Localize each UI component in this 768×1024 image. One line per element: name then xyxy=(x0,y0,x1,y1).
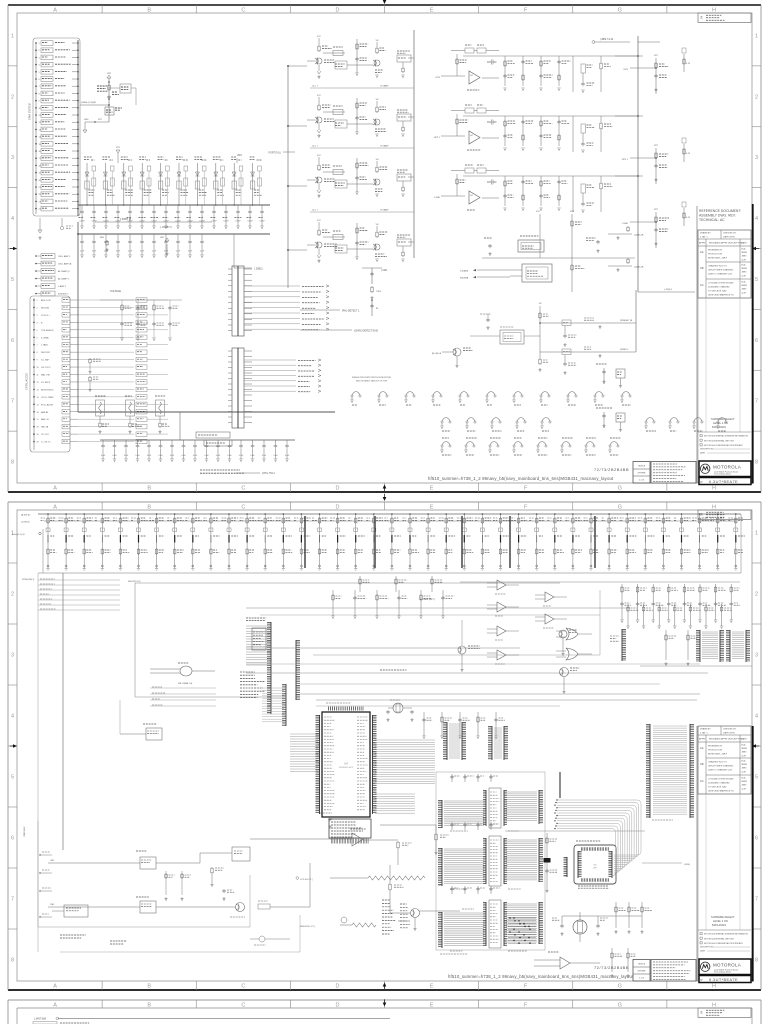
svg-text:SHT/RE: SHT/RE xyxy=(637,971,646,973)
connector J502 pin 9 xyxy=(33,359,35,361)
part number bar xyxy=(699,976,751,983)
resistor RP21B lower xyxy=(427,548,429,549)
net box J502 row 17 xyxy=(62,417,70,421)
net label CHRG DETECT xyxy=(300,329,352,331)
svg-text:VCC: VCC xyxy=(317,220,322,222)
wire bus right of stages xyxy=(413,30,415,258)
left column resistor R630 xyxy=(546,833,548,889)
svg-text:RELEASED BY: RELEASED BY xyxy=(708,745,723,748)
ground stub xyxy=(84,122,86,130)
bus tie xyxy=(615,115,638,117)
resistor RP8 pull-up group xyxy=(192,514,194,568)
revision table xyxy=(698,230,751,298)
connector J502 pin 4 xyxy=(33,322,35,324)
net box J502 row 16 xyxy=(62,410,70,414)
resistor pair R21 xyxy=(110,166,114,171)
resistor RP10 pull-up group xyxy=(228,514,230,568)
wire row bus xyxy=(463,55,643,57)
svg-text:4: 4 xyxy=(755,216,758,222)
resistor RP8B lower xyxy=(192,548,194,549)
svg-text:( J2/B11: ( J2/B11 xyxy=(254,268,263,271)
connector J501 pin 4 xyxy=(35,64,37,66)
wire J504 fanout 2 xyxy=(244,364,296,366)
connector J502 pin 12 xyxy=(33,381,35,383)
svg-text:LCD B.LCT (: LCD B.LCT ( xyxy=(300,879,313,881)
svg-text:5: 5 xyxy=(11,277,14,283)
capacitor C705 xyxy=(222,889,226,893)
svg-text:14: 14 xyxy=(37,397,39,399)
resistor pair far right xyxy=(665,630,667,660)
connector J501 pin 18 xyxy=(35,165,37,167)
centering arrow top xyxy=(383,0,387,4)
svg-text:MOTOROLA INTERNAL USE ONLY: MOTOROLA INTERNAL USE ONLY xyxy=(704,937,735,940)
svg-text:(R.LED A: (R.LED A xyxy=(432,352,442,355)
qfp pins right inner xyxy=(611,851,613,878)
wire preset row 2 xyxy=(540,351,636,353)
svg-text:MC6834C-HC3: MC6834C-HC3 xyxy=(339,767,354,769)
resistor RP24B lower xyxy=(481,548,483,549)
wire fan left xyxy=(38,579,120,581)
svg-text:19: 19 xyxy=(37,434,39,436)
svg-text:3: 3 xyxy=(755,155,758,161)
svg-text:5: 5 xyxy=(755,277,758,283)
svg-text:6: 6 xyxy=(37,337,38,339)
resistor R in xyxy=(323,236,345,238)
svg-text:Schaumburg, Illinois: Schaumburg, Illinois xyxy=(714,473,731,476)
revision table xyxy=(698,726,751,794)
resistor R120 block xyxy=(105,107,114,115)
hanging stub VR72 xyxy=(39,218,41,230)
left bank vertical xyxy=(42,529,44,573)
svg-text:JME3: JME3 xyxy=(742,785,747,787)
bus tie xyxy=(615,175,638,177)
resistor R70b stub xyxy=(683,54,685,72)
wire 2MHz clock xyxy=(80,104,109,106)
resistor column right of combs xyxy=(671,730,673,750)
svg-text:D: D xyxy=(335,984,339,990)
op-amp triangle xyxy=(469,131,480,144)
resistor RP27B lower xyxy=(536,548,538,549)
svg-text:20: 20 xyxy=(37,442,39,444)
connector J501 pin 7 xyxy=(35,85,37,87)
bus loop outline A xyxy=(134,583,136,697)
vertical feed to loops xyxy=(559,772,561,798)
qfp routing loops xyxy=(557,800,641,855)
svg-text:8403-49401: 8403-49401 xyxy=(712,425,726,429)
resistor RP35B lower xyxy=(681,548,683,549)
svg-text:ASSEMBLY DWG: REV:: ASSEMBLY DWG: REV: xyxy=(699,214,736,218)
svg-text:D: D xyxy=(335,1002,339,1008)
svg-text:PRODUCTION: PRODUCTION xyxy=(708,254,722,256)
svg-text:1: 1 xyxy=(755,33,758,39)
resistor RP10B lower xyxy=(228,548,230,549)
crystal X401 xyxy=(393,703,403,713)
junction tick 3 xyxy=(101,535,103,543)
labels cluster bottom-left xyxy=(60,934,86,936)
testpoint TP1 xyxy=(467,418,475,422)
resistor RP5 pull-up group xyxy=(138,514,140,568)
junction tick 15 xyxy=(319,535,321,543)
resistor RP36B lower xyxy=(699,548,701,549)
testpoint TP1 xyxy=(670,418,678,422)
wire bus grid mid xyxy=(246,607,630,609)
svg-text:G: G xyxy=(618,504,622,510)
wire bus gates xyxy=(460,581,740,583)
svg-text:DATE:: DATE: xyxy=(700,452,706,455)
testpoint TP9 xyxy=(595,392,603,396)
junction tick 7 xyxy=(174,535,176,543)
net box J502 row 9 xyxy=(62,357,70,361)
svg-text:( CM1: ( CM1 xyxy=(381,270,388,272)
svg-text:2: 2 xyxy=(755,94,758,100)
comb pair right2 xyxy=(491,726,493,760)
svg-text:CELL AMP (B: CELL AMP (B xyxy=(58,263,72,266)
transistor Q xyxy=(316,177,322,183)
connector J501 pin 1 xyxy=(35,42,37,44)
rc ladder xyxy=(504,56,506,86)
testpoint TP4 xyxy=(460,392,468,396)
output network xyxy=(397,174,411,181)
net box J502 row 13 xyxy=(62,387,70,391)
svg-text:VOLTAGE: VOLTAGE xyxy=(110,290,121,293)
svg-text:ICL.MIC3: ICL.MIC3 xyxy=(41,382,51,384)
cpu fanout right lower xyxy=(375,793,415,795)
resistor RP14 pull-up group xyxy=(300,514,302,568)
testpoint TP7 xyxy=(541,392,549,396)
cpu top pins xyxy=(328,707,364,711)
resistor RP4 pull-up group xyxy=(119,514,121,568)
resistor RP3 pull-up group xyxy=(101,514,103,568)
connector J501 pin 12 xyxy=(35,121,37,123)
resistor RP37 pull-up group xyxy=(717,514,719,568)
svg-text:8: 8 xyxy=(755,958,758,964)
resistor R117 network xyxy=(108,78,110,122)
svg-text:S4: S4 xyxy=(700,1010,704,1014)
svg-text:8: 8 xyxy=(11,958,14,964)
svg-text:1: 1 xyxy=(11,33,14,39)
wire row bus xyxy=(463,175,643,177)
centering arrow left xyxy=(13,744,17,748)
net arrow FULL RATE xyxy=(300,309,340,311)
svg-text:CLC 7: CLC 7 xyxy=(312,210,319,212)
svg-text:COOL.TEMP: COOL.TEMP xyxy=(41,397,54,399)
wire bus BANKB xyxy=(78,233,270,235)
svg-text:VR2: VR2 xyxy=(237,154,242,157)
left bus drop xyxy=(62,573,64,850)
svg-text:7: 7 xyxy=(37,345,38,347)
cpu pins left xyxy=(319,715,321,814)
wire bus bottom xyxy=(100,439,295,441)
svg-text:LP.LAMP: LP.LAMP xyxy=(380,209,389,212)
svg-text:H: H xyxy=(712,504,716,510)
resistor RP36 pull-up group xyxy=(699,514,701,568)
net box J502 row 5 xyxy=(62,328,70,332)
svg-text:(PRES 1: (PRES 1 xyxy=(620,349,629,351)
resistor pair R26 xyxy=(202,166,206,171)
output resistor right xyxy=(600,62,602,63)
junction tick 34 xyxy=(662,535,664,543)
svg-text:5: 5 xyxy=(755,775,758,781)
svg-text:(PAL-DETECT 1: (PAL-DETECT 1 xyxy=(342,310,360,313)
power stub VR row xyxy=(539,306,541,352)
svg-text:Schaumburg, Illinois: Schaumburg, Illinois xyxy=(714,971,731,974)
svg-text:DATE:: DATE: xyxy=(700,950,706,953)
svg-text:SINGLE PIN TESTPOINT FOR MOD/T: SINGLE PIN TESTPOINT FOR MOD/TVE xyxy=(352,377,391,379)
proprietary notice box xyxy=(651,960,696,982)
connector P402 comb xyxy=(295,640,297,700)
svg-text:MOTOROLA INTERNAL USE ONLY: MOTOROLA INTERNAL USE ONLY xyxy=(704,439,735,442)
svg-text:4: 4 xyxy=(11,216,14,222)
svg-text:E: E xyxy=(430,984,434,990)
wire bottom loop xyxy=(60,951,300,953)
qfp pins top inner xyxy=(581,847,609,851)
wire to bank xyxy=(77,222,79,285)
svg-text:DATE: DATE xyxy=(741,242,747,245)
box U705 xyxy=(64,905,88,917)
junction tick 32 xyxy=(626,535,628,543)
svg-text:AC: AC xyxy=(700,779,704,783)
wire row bus xyxy=(463,115,643,117)
ribbon cable W3A xyxy=(441,912,443,948)
svg-text:13: 13 xyxy=(37,389,39,391)
svg-text:LIK.TVC3: LIK.TVC3 xyxy=(41,367,51,369)
svg-text:12: 12 xyxy=(37,382,39,384)
svg-text:T+.75LT 5: T+.75LT 5 xyxy=(41,442,51,444)
junction tick 25 xyxy=(500,535,502,543)
svg-text:VCC: VCC xyxy=(317,36,322,38)
svg-text:6.3UT*BEA7E: 6.3UT*BEA7E xyxy=(709,479,738,484)
ribbon cable W2B xyxy=(538,838,540,882)
svg-text:D: D xyxy=(335,486,339,492)
resistor R mid xyxy=(356,98,358,132)
svg-text:PRODUCTION: PRODUCTION xyxy=(708,750,722,752)
sheet size box xyxy=(633,960,650,982)
connector J501 pin 6 xyxy=(35,78,37,80)
resistor RP18 pull-up group xyxy=(373,514,375,568)
svg-text:SYN.CL+: SYN.CL+ xyxy=(41,315,51,317)
svg-text:1: 1 xyxy=(755,531,758,537)
capacitor C611 xyxy=(596,924,600,928)
resistor RP35 pull-up group xyxy=(681,514,683,568)
svg-text:ICL.TAP: ICL.TAP xyxy=(41,359,50,362)
testpoint TP3 xyxy=(433,392,441,396)
svg-text:REFERENCE DOCUMENT:: REFERENCE DOCUMENT: xyxy=(699,209,741,213)
junction tick 30 xyxy=(590,535,592,543)
cpu internal pin labels xyxy=(324,716,332,718)
hanging stub VR73 xyxy=(61,218,63,226)
cap C701 xyxy=(328,817,332,821)
svg-text:2: 2 xyxy=(755,592,758,598)
connector J501 pin 8 xyxy=(35,93,37,95)
transistor Q702 xyxy=(411,909,420,918)
resistor R in xyxy=(323,171,345,173)
resistor R in xyxy=(323,52,345,54)
junction tick 33 xyxy=(644,535,646,543)
sheet outer border xyxy=(8,4,761,6)
svg-text:VCC: VCC xyxy=(536,211,541,213)
capacitor C coupling xyxy=(335,245,347,253)
svg-text:C274 AND GYR4P-BYGAD: C274 AND GYR4P-BYGAD xyxy=(708,778,734,781)
testpoint TP6 xyxy=(586,437,596,439)
junction tick 38 xyxy=(735,535,737,543)
svg-text:Q-9E: Q-9E xyxy=(742,755,747,757)
ribbon comb single xyxy=(621,629,623,661)
svg-text:Q-9E: Q-9E xyxy=(742,788,747,790)
left rail stubs xyxy=(40,854,52,856)
svg-text:LEVEL 2 ON: LEVEL 2 ON xyxy=(713,919,728,923)
connector J502 pin 15 xyxy=(33,404,35,406)
cpu bottom pin comb xyxy=(331,839,369,844)
classification checkboxes xyxy=(698,929,751,931)
Motorola logo box xyxy=(699,461,751,477)
bus loop outline B xyxy=(313,654,600,656)
sheet number box top right xyxy=(698,510,751,519)
svg-text:(A.SW (D: (A.SW (D xyxy=(21,514,31,517)
connector J502 pin 17 xyxy=(33,418,35,420)
ribbon cable W1A xyxy=(441,800,443,828)
svg-text:APPR.: APPR. xyxy=(699,242,706,245)
net box J502 row 18 xyxy=(62,424,70,428)
svg-text:G: G xyxy=(618,1002,622,1008)
svg-text:A: A xyxy=(53,504,57,510)
small parts column left xyxy=(89,358,91,359)
wire J504 fanout 3 xyxy=(244,369,296,371)
bias resistor xyxy=(465,108,474,113)
junction tick 6 xyxy=(156,535,158,543)
svg-text:TO G3H+ECR GAD: TO G3H+ECR GAD xyxy=(708,290,727,293)
junction tick 11 xyxy=(246,535,248,543)
svg-text:4.7K: 4.7K xyxy=(686,63,691,65)
label block P401 xyxy=(240,671,255,673)
resistor RP11 pull-up group xyxy=(246,514,248,568)
capacitor C pair2 xyxy=(371,268,373,284)
svg-text:E: E xyxy=(430,7,434,13)
connector J502 pin 19 xyxy=(33,433,35,435)
resistor RP12B lower xyxy=(264,548,266,549)
ribbon labels 1 xyxy=(450,830,468,832)
resistor R4R8 xyxy=(539,352,541,358)
resistor RP13 pull-up group xyxy=(282,514,284,568)
connector J501 pin 5 xyxy=(35,71,37,73)
junction tick 13 xyxy=(282,535,284,543)
wire right edge xyxy=(638,291,695,293)
svg-text:MOTOROLA CONFIDENTIAL PROPRIET: MOTOROLA CONFIDENTIAL PROPRIETARY xyxy=(704,444,744,447)
wire fanout to logic xyxy=(78,299,134,301)
svg-text:4: 4 xyxy=(11,714,14,720)
svg-text:GRK4*POWER CHANGED: GRK4*POWER CHANGED xyxy=(708,269,734,272)
pull-up bank bus top xyxy=(38,513,741,515)
discrete row right of crystal xyxy=(423,712,425,736)
resistor RP26 pull-up group xyxy=(518,514,520,568)
svg-text:A: A xyxy=(53,7,57,13)
buffer ic U503 xyxy=(489,900,501,948)
cpu body U401 xyxy=(322,712,370,817)
connector J502 pin 7 xyxy=(33,344,35,346)
svg-text:11: 11 xyxy=(37,375,39,377)
connector J504 xyxy=(232,348,244,428)
junction tick 9 xyxy=(210,535,212,543)
resistor RP37B lower xyxy=(717,548,719,549)
svg-text:APPR.: APPR. xyxy=(699,738,706,741)
resistor RP33 pull-up group xyxy=(644,514,646,568)
svg-text:2: 2 xyxy=(11,94,14,100)
resistor R702 xyxy=(435,833,437,834)
net box J502 row 11 xyxy=(62,372,70,376)
svg-text:(J.SW (D: (J.SW (D xyxy=(21,522,30,524)
transistor Q xyxy=(316,117,322,123)
connector J501 pin 10 xyxy=(35,107,37,109)
svg-text:ATN.CON: ATN.CON xyxy=(41,299,51,302)
net box J502 row 12 xyxy=(62,380,70,384)
svg-text:8403-49401: 8403-49401 xyxy=(712,923,726,927)
svg-text:MOTOROLA GENERAL BUSINESS INFO: MOTOROLA GENERAL BUSINESS INFORMATION xyxy=(704,435,749,438)
svg-text:B: B xyxy=(147,984,151,990)
resistor R mid xyxy=(356,158,358,192)
resistor pair R25 xyxy=(184,166,188,171)
junction tick 22 xyxy=(445,535,447,543)
resistor RP6 pull-up group xyxy=(156,514,158,568)
svg-text:CHECKED BY: CHECKED BY xyxy=(723,729,737,731)
svg-text:TAK.7A: TAK.7A xyxy=(41,426,49,429)
resistor RP24 pull-up group xyxy=(481,514,483,568)
resistor RP32B lower xyxy=(626,548,628,549)
resistor RP29 pull-up group xyxy=(572,514,574,568)
svg-text:J.AMP 1: J.AMP 1 xyxy=(58,285,67,288)
ribbon cable W3B xyxy=(538,902,540,944)
xor gates U430 xyxy=(566,628,578,640)
connector J501 pin 15 xyxy=(35,143,37,145)
svg-text:JME3: JME3 xyxy=(742,272,747,274)
junction tick 8 xyxy=(192,535,194,543)
output network xyxy=(397,55,411,62)
capacitor bank C240-C250 xyxy=(81,234,83,240)
testpoint TP1 xyxy=(379,392,387,396)
svg-text:ALT AMP 5: ALT AMP 5 xyxy=(58,278,70,281)
resistor RP19 pull-up group xyxy=(391,514,393,568)
resistor RP22B lower xyxy=(445,548,447,549)
svg-text:hf510_summer=h738_1_2 99navy_b: hf510_summer=h738_1_2 99navy_b5(navy_mai… xyxy=(448,974,634,979)
resistor block R400 xyxy=(196,432,230,438)
svg-text:GD3E W4E 4BAPRECE TD.: GD3E W4E 4BAPRECE TD. xyxy=(708,294,735,297)
svg-text:5: 5 xyxy=(11,775,14,781)
svg-text:CHANGED R2 D TO: CHANGED R2 D TO xyxy=(708,265,727,268)
junction tick 28 xyxy=(554,535,556,543)
sheet number box top right xyxy=(698,13,751,22)
qfp pin labels below xyxy=(578,885,608,887)
svg-text:IL.SHAL: IL.SHAL xyxy=(41,336,50,339)
svg-text:CNTRL/ACCES: CNTRL/ACCES xyxy=(26,373,29,390)
junction tick 21 xyxy=(427,535,429,543)
svg-text:UPP 1: UPP 1 xyxy=(622,159,629,161)
resistor RP18B lower xyxy=(373,548,375,549)
svg-text:RELEASED APPR DESCRIPTION: RELEASED APPR DESCRIPTION xyxy=(709,738,743,741)
svg-text:16: 16 xyxy=(37,412,39,414)
svg-text:DRAWN BY: DRAWN BY xyxy=(700,232,711,235)
resistor R72b stub xyxy=(683,208,685,226)
svg-text:Q-9E: Q-9E xyxy=(742,259,747,261)
svg-text:JME3: JME3 xyxy=(742,289,747,291)
junction tick 27 xyxy=(536,535,538,543)
svg-text:VCC: VCC xyxy=(317,155,322,157)
junction tick 36 xyxy=(699,535,701,543)
connector group CELL AMP rows xyxy=(35,255,37,257)
svg-text:Q-9E: Q-9E xyxy=(742,275,747,277)
svg-text:H: H xyxy=(712,7,716,13)
svg-text:(C2B3 AND CHANGED: (C2B3 AND CHANGED xyxy=(708,286,730,289)
resistor RP20B lower xyxy=(409,548,411,549)
resistor RP1B lower xyxy=(65,548,67,549)
svg-text:8: 8 xyxy=(755,460,758,466)
